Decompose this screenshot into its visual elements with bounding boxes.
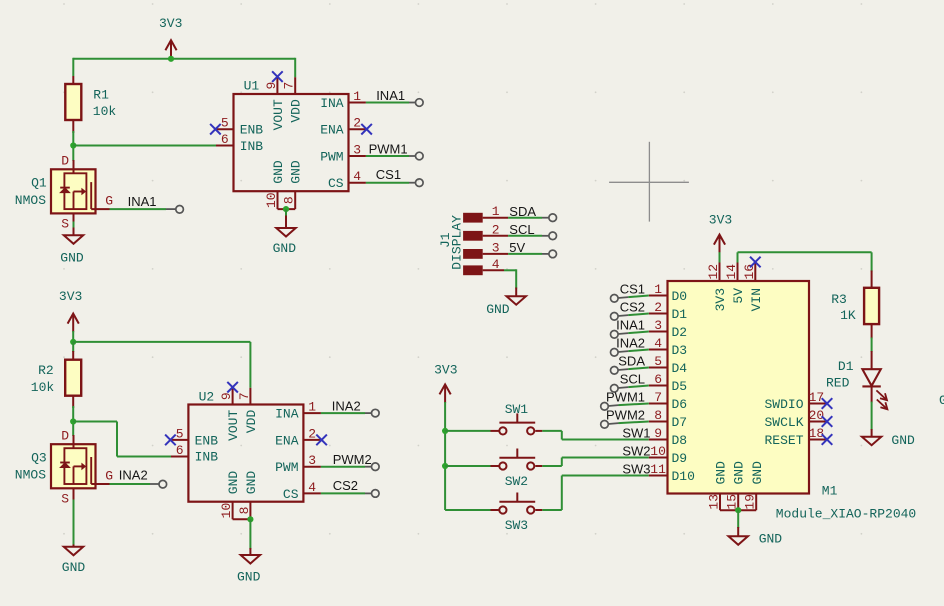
svg-text:PWM1: PWM1 <box>369 141 408 156</box>
wire M1 ground to symbol <box>737 510 739 528</box>
net label INA2 (U2) <box>332 398 361 413</box>
svg-text:2: 2 <box>492 222 500 237</box>
svg-text:GND: GND <box>714 461 729 485</box>
svg-text:17: 17 <box>809 390 825 405</box>
svg-text:3V3: 3V3 <box>159 16 182 31</box>
svg-text:D3: D3 <box>672 343 688 358</box>
net label SW2 (M1) <box>622 444 650 459</box>
svg-text:2: 2 <box>353 116 361 131</box>
svg-text:SWDIO: SWDIO <box>764 397 803 412</box>
wire U1 PWM to PWM1 terminal <box>366 155 416 157</box>
pin name D7 (M1) <box>672 415 688 430</box>
label SW1 <box>505 402 529 417</box>
svg-text:3: 3 <box>308 453 316 468</box>
pin name INB (U2) <box>195 450 219 465</box>
transistor Q3 <box>51 435 110 501</box>
pin label D (Q3) <box>61 428 69 443</box>
svg-text:6: 6 <box>654 372 662 387</box>
svg-text:5V: 5V <box>509 240 525 255</box>
pin 2 ENA (U1, no-connect) <box>349 116 372 135</box>
svg-text:GND: GND <box>226 471 241 495</box>
net label SDA (J1) <box>509 204 536 219</box>
terminal circle INA1 (U1) <box>416 99 424 107</box>
svg-text:R2: R2 <box>38 363 54 378</box>
pin label D (Q1) <box>61 154 69 169</box>
svg-text:D5: D5 <box>672 379 688 394</box>
terminal circle CS1 (M1) <box>611 295 619 303</box>
wire U2 CS to CS2 terminal <box>321 492 372 494</box>
svg-text:Module_XIAO-RP2040: Module_XIAO-RP2040 <box>776 507 916 522</box>
svg-text:D9: D9 <box>672 451 688 466</box>
junction at R2/Q3/INB2 node <box>70 418 76 424</box>
net label INA1 (M1) <box>616 318 645 333</box>
net label SDA (M1) <box>618 354 645 369</box>
pin 8 D7 (M1) <box>649 408 668 423</box>
svg-text:G: G <box>105 468 113 483</box>
svg-text:18: 18 <box>809 426 825 441</box>
svg-text:13: 13 <box>707 494 722 510</box>
svg-text:3: 3 <box>492 240 500 255</box>
svg-text:GND: GND <box>244 471 259 495</box>
pin name ENB (U2) <box>195 433 219 448</box>
pin name SWDIO (M1) <box>764 397 803 412</box>
net label PWM2 (U2) <box>333 452 372 467</box>
svg-text:D: D <box>61 154 69 169</box>
pin name ENB (U1) <box>240 123 264 138</box>
pin 8 GND (U2) <box>237 502 252 520</box>
wire R3 to D1 <box>871 338 873 353</box>
pin name ENA (U1) <box>320 123 344 138</box>
junction at 3V3 rail <box>168 56 174 62</box>
svg-text:PWM2: PWM2 <box>606 408 645 423</box>
pin 1 D0 (M1) <box>649 282 668 297</box>
svg-text:ENB: ENB <box>195 433 219 448</box>
svg-text:R1: R1 <box>93 88 109 103</box>
pin 11 D10 (M1) <box>649 462 668 477</box>
svg-text:3V3: 3V3 <box>713 288 728 311</box>
wire 3V3 switch rail <box>444 402 446 510</box>
svg-text:INA2: INA2 <box>616 336 645 351</box>
pin 6 INB (U1) <box>216 132 234 147</box>
svg-text:INA1: INA1 <box>128 194 157 209</box>
svg-text:D2: D2 <box>672 325 688 340</box>
wire M1 5V to R3 <box>738 252 872 271</box>
wire U1 INA to INA1 terminal <box>366 102 416 104</box>
svg-text:6: 6 <box>221 132 229 147</box>
svg-text:11: 11 <box>650 462 666 477</box>
pin 9 VOUT (U2, no-connect) <box>219 382 238 405</box>
label R2 10k <box>31 363 55 395</box>
pin name INA (U2) <box>275 407 299 422</box>
svg-text:Q1: Q1 <box>31 176 47 191</box>
pin 19 GND (M1) <box>743 494 758 511</box>
svg-text:4: 4 <box>492 257 500 272</box>
wire CS1 to M1 D0 <box>618 296 649 299</box>
net label SCL (M1) <box>620 372 645 387</box>
svg-text:INB: INB <box>240 139 264 154</box>
pin name GND (U2 pin8) <box>244 471 259 495</box>
svg-text:CS2: CS2 <box>333 478 358 493</box>
svg-text:1: 1 <box>308 400 316 415</box>
svg-text:SDA: SDA <box>509 204 536 219</box>
svg-text:10: 10 <box>650 444 666 459</box>
net label INA1 (U1) <box>376 88 405 103</box>
pin 10 GND (U1) <box>264 191 279 209</box>
svg-text:10k: 10k <box>93 104 117 119</box>
wire U2 PWM to PWM2 terminal <box>321 466 372 468</box>
pin 20 SWCLK (M1, no-connect) <box>809 408 833 427</box>
connector J1 pin pads <box>463 213 483 275</box>
svg-text:ENB: ENB <box>240 123 264 138</box>
wire U1 ground to symbol <box>285 209 287 216</box>
terminal circle INA2 (U2) <box>372 409 380 417</box>
switch SW3 <box>499 493 542 514</box>
wire SW3 to M1 D10 <box>542 476 649 511</box>
pin name INB (U1) <box>240 139 264 154</box>
svg-text:D6: D6 <box>672 397 688 412</box>
svg-text:DISPLAY: DISPLAY <box>449 215 464 270</box>
wire SW1 to M1 D8 <box>542 431 649 440</box>
terminal circle INA1 (Q1) <box>176 206 184 214</box>
pin 15 GND (M1) <box>725 494 740 511</box>
svg-text:SW3: SW3 <box>505 518 528 533</box>
terminal circle SDA (J1) <box>549 214 557 222</box>
pin 1 (J1) wire SDA <box>483 204 549 219</box>
power symbol 3V3 (switch rail) <box>434 363 457 403</box>
net label INA2 (M1) <box>616 336 645 351</box>
pin 6 D5 (M1) <box>649 372 668 387</box>
wire INA1 to M1 D2 <box>618 332 649 335</box>
wire R2 to Q3 drain <box>72 406 74 436</box>
svg-text:GND: GND <box>486 302 510 317</box>
pin 7 VDD (U1) <box>282 77 297 94</box>
pin 4 CS (U2) <box>303 480 321 495</box>
pin 7 D6 (M1) <box>649 390 668 405</box>
svg-text:PWM: PWM <box>320 149 343 164</box>
pin 4 D3 (M1) <box>649 336 668 351</box>
svg-text:7: 7 <box>282 82 297 90</box>
svg-text:D1: D1 <box>838 359 854 374</box>
pin 12 3V3 (M1) <box>706 263 721 282</box>
pin label G (Q3) <box>105 468 113 483</box>
wire U2 ground to symbol <box>249 519 251 549</box>
svg-text:INA1: INA1 <box>616 318 645 333</box>
svg-text:CS1: CS1 <box>620 282 645 297</box>
pin name D8 (M1) <box>672 433 688 448</box>
net label SCL (J1) <box>509 222 534 237</box>
terminal circle SCL (J1) <box>549 232 557 240</box>
ground symbol below Q1 <box>60 228 84 266</box>
pin name VDD (U2) <box>244 410 259 434</box>
wire INA2 to M1 D3 <box>618 350 649 353</box>
svg-text:2: 2 <box>654 300 662 315</box>
terminal circle PWM2 (U2) <box>372 463 380 471</box>
net label CS1 (U1) <box>376 167 401 182</box>
svg-text:3V3: 3V3 <box>59 289 82 304</box>
svg-text:S: S <box>61 491 69 506</box>
terminal circle CS2 (M1) <box>611 313 619 321</box>
svg-text:9: 9 <box>264 82 279 90</box>
wire SCL to M1 D5 <box>618 386 649 389</box>
net label CS1 (M1) <box>620 282 645 297</box>
svg-text:U1: U1 <box>244 79 260 94</box>
svg-text:SW2: SW2 <box>505 474 528 489</box>
svg-text:VIN: VIN <box>749 288 764 311</box>
pin 5 ENB (U1, no-connect) <box>210 116 233 135</box>
pin name GND (U2 pin10) <box>226 471 241 495</box>
net label GND (right edge, clipped) <box>939 393 944 408</box>
svg-text:INA2: INA2 <box>332 398 361 413</box>
svg-text:20: 20 <box>809 408 825 423</box>
svg-text:GND: GND <box>237 569 261 584</box>
resistor R3 <box>864 271 879 339</box>
label Module_XIAO-RP2040 <box>776 507 916 522</box>
label R3 1K <box>831 292 856 323</box>
switch SW2 <box>499 449 542 470</box>
pin name D1 (M1) <box>672 307 688 322</box>
svg-text:ENA: ENA <box>275 433 299 448</box>
svg-text:RED: RED <box>826 376 850 391</box>
switch SW1 <box>499 413 542 434</box>
svg-text:4: 4 <box>308 480 316 495</box>
pin name SWCLK (M1) <box>764 415 803 430</box>
svg-text:INA: INA <box>320 96 344 111</box>
pin 16 VIN (M1, no-connect) <box>742 257 761 281</box>
svg-text:SWCLK: SWCLK <box>764 415 803 430</box>
wire PWM2 to M1 D7 <box>608 422 649 425</box>
terminal circle INA1 (M1) <box>611 331 619 339</box>
junction U2 ground <box>247 516 253 522</box>
svg-text:5: 5 <box>221 116 229 131</box>
svg-text:D8: D8 <box>672 433 688 448</box>
svg-text:10: 10 <box>219 503 234 519</box>
pin name GND (U1 pin8) <box>289 160 304 184</box>
svg-text:GND: GND <box>62 560 86 575</box>
wire D1 to ground <box>871 402 873 430</box>
ground symbol below D1 <box>862 429 915 448</box>
pin name ENA (U2) <box>275 433 299 448</box>
svg-text:INA1: INA1 <box>376 88 405 103</box>
pin name VOUT (U1) <box>271 99 286 130</box>
wire joining U1 ground pins <box>278 208 296 210</box>
junction switch rail SW1 <box>442 428 448 434</box>
pin name RESET (M1) <box>764 433 803 448</box>
wire 3V3 to R2 and U2 VDD <box>73 342 250 388</box>
label Q1 NMOS <box>15 176 47 208</box>
svg-text:5V: 5V <box>731 288 746 304</box>
terminal circle CS2 (U2) <box>372 490 380 498</box>
svg-text:1: 1 <box>353 89 361 104</box>
label J1 DISPLAY <box>438 215 465 270</box>
pin 7 VDD (U2) <box>237 388 252 405</box>
pin 8 GND (U1) <box>282 191 297 209</box>
svg-text:4: 4 <box>353 169 361 184</box>
svg-text:SW1: SW1 <box>505 402 529 417</box>
label M1 <box>822 484 838 499</box>
svg-text:Q3: Q3 <box>31 450 47 465</box>
wire rail to SW2 <box>445 465 499 467</box>
terminal circle 5V (J1) <box>549 250 557 258</box>
pin name VIN (M1) <box>749 288 764 311</box>
pin 13 GND (M1) <box>707 494 722 511</box>
pin 1 INA (U2) <box>303 400 321 415</box>
junction switch rail SW2 <box>442 463 448 469</box>
svg-text:3: 3 <box>353 143 361 158</box>
pin 9 VOUT (U1, no-connect) <box>264 71 283 94</box>
wire joining M1 ground pins <box>720 509 756 511</box>
svg-text:8: 8 <box>654 408 662 423</box>
terminal circle SDA (M1) <box>611 367 619 375</box>
svg-text:CS1: CS1 <box>376 167 401 182</box>
label R1 10k <box>93 88 117 120</box>
pin name GND (M1 pin19) <box>750 461 765 485</box>
label SW3 <box>505 518 528 533</box>
svg-text:SCL: SCL <box>509 222 534 237</box>
wire joining U2 ground pins <box>233 518 251 520</box>
wire rail to SW1 <box>445 430 499 432</box>
pin name PWM (U2) <box>275 460 298 475</box>
wire Q3 gate to INA2 terminal <box>110 483 159 485</box>
svg-text:4: 4 <box>654 336 662 351</box>
svg-text:D: D <box>61 428 69 443</box>
pin 2 (J1) wire SCL <box>483 222 549 237</box>
svg-text:8: 8 <box>282 196 297 204</box>
ground symbol below U1 <box>273 216 297 256</box>
pin name 3V3 (M1) <box>713 288 728 311</box>
svg-text:G: G <box>105 194 113 209</box>
pin name D9 (M1) <box>672 451 688 466</box>
label D1 RED <box>826 359 854 391</box>
svg-text:RESET: RESET <box>764 433 803 448</box>
svg-text:GND: GND <box>271 160 286 184</box>
svg-text:PWM: PWM <box>275 460 298 475</box>
wire SDA to M1 D4 <box>618 368 649 371</box>
svg-text:GND: GND <box>273 241 297 256</box>
svg-text:S: S <box>61 217 69 232</box>
pin 5 D4 (M1) <box>649 354 668 369</box>
wire node to U1 pin 6 INB <box>73 145 216 147</box>
svg-text:SCL: SCL <box>620 372 645 387</box>
pin name INA (U1) <box>320 96 344 111</box>
wire U1 CS to CS1 terminal <box>366 182 416 184</box>
net label PWM2 (M1) <box>606 408 645 423</box>
net label SW3 (M1) <box>622 462 650 477</box>
power symbol 3V3 (bottom left) <box>59 289 82 342</box>
pin 2 D1 (M1) <box>649 300 668 315</box>
terminal circle PWM1 (M1) <box>601 403 609 411</box>
terminal circle PWM2 (M1) <box>601 421 609 429</box>
svg-text:GND: GND <box>939 393 944 408</box>
junction at R1/Q1/INB node <box>70 142 76 148</box>
wire U2 INA to INA2 terminal <box>321 412 372 414</box>
svg-text:INA2: INA2 <box>119 467 148 482</box>
svg-text:U2: U2 <box>199 389 215 404</box>
wire rail to SW3 <box>445 509 499 511</box>
pin 17 SWDIO (M1, no-connect) <box>809 390 833 409</box>
pin 18 RESET (M1, no-connect) <box>809 426 833 445</box>
svg-text:NMOS: NMOS <box>15 193 46 208</box>
op-amp/driver U2 body <box>188 405 303 502</box>
svg-text:CS2: CS2 <box>620 300 645 315</box>
wire SW2 to M1 D9 <box>542 458 649 467</box>
svg-text:1: 1 <box>492 204 500 219</box>
terminal circle INA2 (M1) <box>611 349 619 357</box>
pin name CS (U2) <box>283 487 299 502</box>
svg-text:GND: GND <box>60 250 84 265</box>
svg-text:5: 5 <box>176 426 184 441</box>
wire 3V3 rail to R1 and U1 VDD <box>73 58 295 77</box>
svg-text:SW3: SW3 <box>622 462 650 477</box>
pin name VOUT (U2) <box>226 410 241 441</box>
pin 3 D2 (M1) <box>649 318 668 333</box>
svg-text:INB: INB <box>195 450 219 465</box>
power symbol 3V3 (top left) <box>159 16 182 59</box>
pin name D6 (M1) <box>672 397 688 412</box>
net label INA1 (Q1 gate) <box>128 194 157 209</box>
label Q3 NMOS <box>15 450 47 482</box>
svg-text:5: 5 <box>654 354 662 369</box>
pin 4 CS (U1) <box>349 169 366 184</box>
LED D1 <box>862 351 887 409</box>
ground symbol below Q3 <box>62 545 86 575</box>
svg-text:3V3: 3V3 <box>709 212 732 227</box>
pin name CS (U1) <box>328 176 344 191</box>
pin 10 D9 (M1) <box>649 444 668 459</box>
pin 5 ENB (U2, no-connect) <box>165 426 188 445</box>
pin label G (Q1) <box>105 194 113 209</box>
svg-text:1: 1 <box>654 282 662 297</box>
pin name GND (M1 pin13) <box>714 461 729 485</box>
pin 10 GND (U2) <box>219 502 234 520</box>
svg-text:14: 14 <box>724 264 739 280</box>
svg-text:16: 16 <box>742 264 757 280</box>
svg-text:VOUT: VOUT <box>226 410 241 441</box>
pin 3 PWM (U1) <box>349 143 366 158</box>
svg-text:VDD: VDD <box>289 99 304 123</box>
svg-text:1K: 1K <box>840 308 856 323</box>
terminal circle INA2 (Q3) <box>159 480 167 488</box>
junction M1 ground <box>735 507 741 513</box>
net label CS2 (U2) <box>333 478 358 493</box>
svg-text:CS: CS <box>328 176 344 191</box>
wire Q3 source to ground <box>73 500 75 546</box>
ground symbol below J1 <box>486 288 526 317</box>
wire Q1 source to ground <box>73 222 75 229</box>
pin name D2 (M1) <box>672 325 688 340</box>
pin 6 INB (U2) <box>171 443 188 458</box>
svg-text:GND: GND <box>750 461 765 485</box>
svg-text:CS: CS <box>283 487 299 502</box>
svg-text:GND: GND <box>759 531 783 546</box>
svg-text:2: 2 <box>308 426 316 441</box>
svg-text:D10: D10 <box>672 469 695 484</box>
label U2 <box>199 389 215 404</box>
label U1 <box>244 79 260 94</box>
svg-text:ENA: ENA <box>320 123 344 138</box>
svg-text:PWM2: PWM2 <box>333 452 372 467</box>
svg-text:10: 10 <box>264 192 279 208</box>
pin name GND (M1 pin15) <box>732 461 747 485</box>
svg-text:INA: INA <box>275 407 299 422</box>
svg-text:D0: D0 <box>672 289 688 304</box>
svg-text:9: 9 <box>654 426 662 441</box>
net label INA2 (Q3 gate) <box>119 467 148 482</box>
pin 9 D8 (M1) <box>649 426 668 441</box>
pin 2 ENA (U2, no-connect) <box>303 426 327 445</box>
svg-text:GND: GND <box>732 461 747 485</box>
net label 5V (J1) <box>509 240 525 255</box>
pin name VDD (U1) <box>289 99 304 123</box>
